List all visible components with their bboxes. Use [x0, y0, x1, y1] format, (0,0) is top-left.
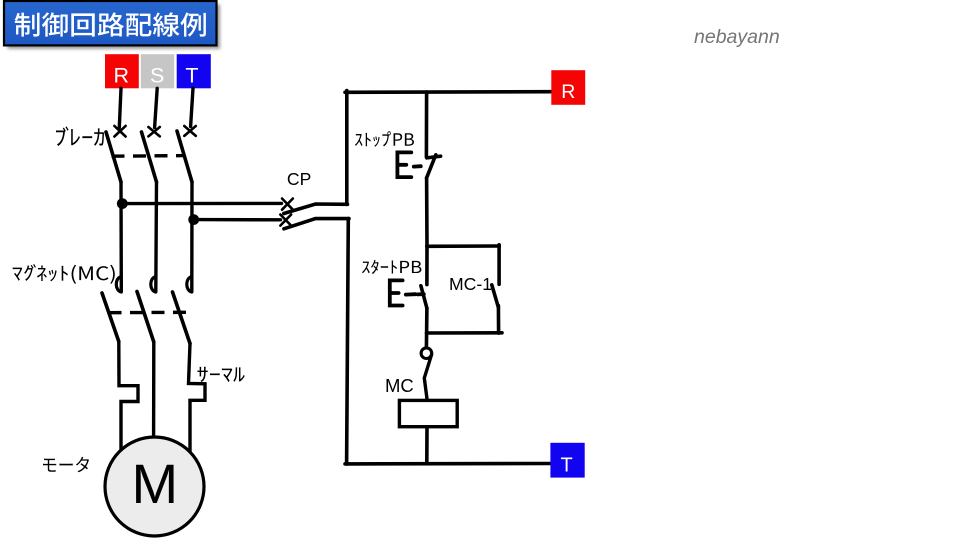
junction node T to CP [188, 214, 199, 225]
breaker blade pole2 [142, 132, 157, 182]
motor circle M [105, 437, 204, 536]
source box T (bottom) [550, 443, 584, 478]
stop PB fixed tick [427, 156, 441, 158]
title box shadow [8, 5, 221, 49]
breaker linkage dashed [112, 154, 186, 158]
svg-text:R: R [114, 64, 130, 88]
terminal x mark T [184, 126, 196, 136]
start PB blade [421, 286, 427, 308]
svg-text:MC: MC [385, 375, 414, 396]
wire T phase drop [191, 88, 193, 126]
breaker blade pole3 [177, 131, 192, 182]
svg-text:nebayann: nebayann [694, 26, 780, 48]
MC fixed contact arc pole3 [187, 277, 192, 293]
svg-text:CP: CP [287, 169, 311, 189]
CP blade upper [284, 204, 348, 214]
control loop left vertical upper [345, 91, 349, 205]
CP blade lower [284, 219, 349, 229]
MC coil rectangle [399, 400, 457, 426]
wire R phase drop [119, 88, 121, 127]
wire pole2 breaker to MC [154, 182, 158, 292]
terminal x mark R [114, 126, 125, 137]
MC-1 contact blade [492, 285, 499, 308]
MC-1 branch upper wire [497, 245, 501, 284]
wire junction T to CP [194, 218, 281, 222]
label breaker (furigana) [56, 126, 104, 146]
svg-text:T: T [185, 64, 198, 88]
MC blade pole1 [102, 293, 119, 342]
wire stop PB to branch [425, 178, 429, 247]
junction node R to CP [117, 198, 128, 209]
wire pole3 breaker to MC [190, 182, 194, 292]
stop PB actuator dash [414, 164, 421, 168]
branch top wire [427, 244, 500, 248]
label thermal [197, 367, 244, 382]
wire + thermal element pole1 [119, 342, 138, 451]
wire pole2 to motor [152, 342, 156, 437]
branch bottom wire [427, 331, 502, 335]
stop PB blade [427, 155, 436, 178]
source box R (top) [105, 54, 139, 88]
wire junction R to CP [122, 202, 281, 206]
MC fixed contact arc pole2 [151, 277, 156, 293]
label start PB [362, 260, 421, 274]
terminal x mark S [148, 127, 159, 136]
wire coil to bottom [425, 427, 429, 464]
wire S phase drop [155, 88, 158, 127]
start PB actuator E [390, 280, 403, 305]
control loop bottom wire [345, 462, 551, 466]
source box T (top) [177, 54, 211, 88]
CP terminal x lower [280, 215, 291, 226]
control loop top wire [345, 90, 551, 94]
svg-text:M: M [131, 452, 178, 515]
label stop PB [355, 131, 414, 146]
svg-text:S: S [150, 64, 164, 88]
breaker blade pole1 [106, 132, 121, 182]
MC blade pole2 [137, 292, 154, 343]
thermal b-contact circle [421, 348, 432, 359]
wire branch bottom to thermal contact [425, 333, 429, 348]
wire top to stop PB [425, 92, 429, 157]
source box S (top) [141, 54, 174, 88]
thermal b-contact blade [424, 355, 431, 401]
wire branch to start PB [425, 246, 429, 284]
MC fixed contact arc pole1 [116, 277, 121, 293]
wire start PB to branch bottom [425, 308, 429, 333]
MC blade pole3 [173, 292, 191, 344]
CP terminal x upper [282, 199, 293, 210]
svg-text:MC-1: MC-1 [449, 274, 492, 294]
MC-1 branch lower wire [497, 306, 501, 334]
stop PB actuator E [397, 152, 411, 177]
wire pole1 breaker to MC [119, 182, 123, 292]
label magnet (MC) [13, 264, 115, 284]
title text [15, 12, 206, 36]
title box [4, 1, 217, 45]
start PB fixed tick [418, 292, 424, 296]
svg-text:R: R [561, 81, 575, 103]
MC linkage dashed [109, 311, 188, 315]
label motor (katakana) [43, 457, 89, 473]
control loop left vertical lower [347, 219, 349, 464]
wire + thermal element pole3 [189, 344, 206, 453]
start PB actuator dash [406, 292, 416, 296]
source box R (right) [551, 70, 585, 105]
svg-text:T: T [560, 454, 572, 476]
